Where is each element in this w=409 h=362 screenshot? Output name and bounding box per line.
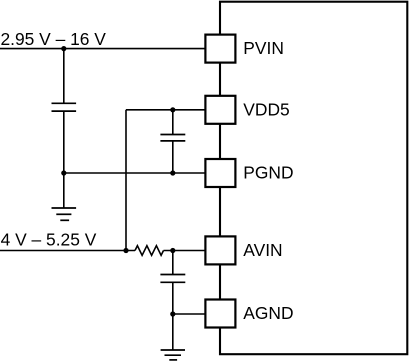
node: R1 / C3 junction: [170, 248, 175, 253]
node: AVIN rail / VDD5 drop junction: [123, 248, 128, 253]
wire: ground 2 lead: [172, 314, 174, 350]
wire: AVIN input rail: [0, 250, 135, 252]
wire: VDD5 drop to AVIN rail: [125, 110, 127, 251]
svg-text:4 V – 5.25 V: 4 V – 5.25 V: [1, 229, 97, 249]
svg-text:AGND: AGND: [243, 303, 293, 323]
wire: C1 bottom lead: [63, 111, 65, 173]
wire: PGND rail: [64, 172, 206, 174]
capacitor C3: [160, 275, 185, 283]
svg-text:VDD5: VDD5: [243, 99, 289, 119]
pin AGND box: [205, 300, 235, 328]
resistor R1: [135, 246, 164, 256]
wire: C3 top lead: [172, 251, 174, 275]
pin PVIN box: [205, 35, 235, 63]
pin VDD5 box: [205, 96, 235, 124]
wire: C2 bottom lead: [172, 141, 174, 173]
node: C2 / PGND rail junction: [170, 170, 175, 175]
wire: R1 to AVIN pin: [164, 250, 206, 252]
IC U1 outline: [220, 2, 407, 355]
wire: PVIN input rail: [0, 48, 205, 50]
svg-text:AVIN: AVIN: [243, 240, 282, 260]
wire: AGND rail: [173, 313, 206, 315]
pin AVIN box: [205, 236, 235, 264]
capacitor C1: [52, 103, 77, 111]
node: VDD5 / C2 junction: [170, 107, 175, 112]
node: C1 / PGND rail junction: [61, 170, 66, 175]
wire: C3 bottom lead: [172, 282, 174, 314]
ground: below C1: [52, 208, 77, 220]
svg-text:PVIN: PVIN: [243, 38, 284, 58]
wire: VDD5 rail: [126, 109, 205, 111]
wire: C2 top lead: [172, 110, 174, 135]
capacitor C2: [160, 135, 185, 141]
node: C3 / AGND junction: [170, 311, 175, 316]
ground: below AGND: [161, 350, 185, 360]
node: PVIN rail / C1 junction: [61, 46, 66, 51]
pin PGND box: [205, 159, 235, 187]
svg-text:2.95 V – 16 V: 2.95 V – 16 V: [1, 29, 107, 49]
wire: ground 1 lead: [63, 173, 65, 208]
svg-text:PGND: PGND: [243, 163, 293, 183]
wire: C1 top lead: [63, 49, 65, 104]
